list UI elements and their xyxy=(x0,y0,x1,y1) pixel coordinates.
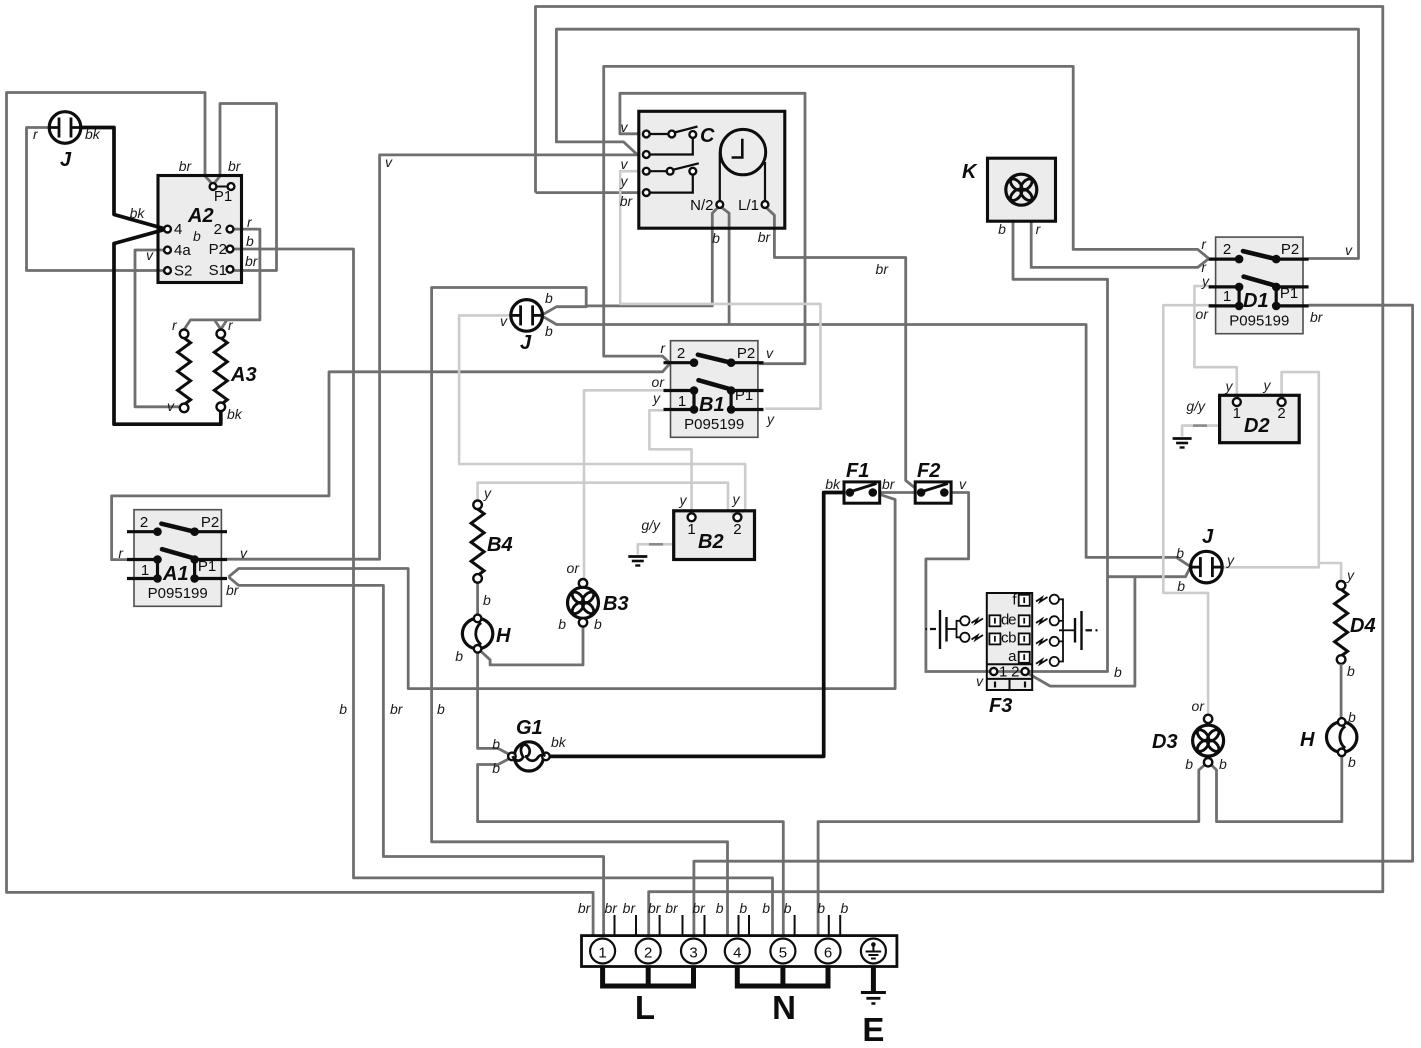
svg-text:y: y xyxy=(766,411,775,427)
wire br D1-P1 to terminal 3 xyxy=(694,305,1413,935)
svg-text:b: b xyxy=(998,221,1006,237)
svg-text:b: b xyxy=(545,323,553,339)
wire b D3 right leg to H-right xyxy=(1209,754,1342,822)
fan block K xyxy=(988,158,1056,221)
svg-text:b: b xyxy=(1177,578,1185,594)
svg-text:y: y xyxy=(1201,273,1210,289)
wire r J to A2-S2 xyxy=(27,128,165,271)
wire v A2-4a to A3 xyxy=(135,250,180,407)
svg-text:b: b xyxy=(1348,754,1356,770)
svg-text:b: b xyxy=(841,900,849,916)
svg-text:b: b xyxy=(193,228,201,244)
fan D3 xyxy=(1204,715,1212,723)
svg-text:br: br xyxy=(1310,309,1324,325)
switch block D1 fill xyxy=(1216,237,1303,334)
svg-text:D4: D4 xyxy=(1350,615,1376,637)
svg-text:1: 1 xyxy=(141,562,149,579)
svg-text:P095199: P095199 xyxy=(1229,313,1289,330)
svg-text:b: b xyxy=(246,233,254,249)
svg-text:b: b xyxy=(1008,630,1016,647)
svg-text:b: b xyxy=(1114,664,1122,680)
svg-text:v: v xyxy=(500,313,508,329)
svg-text:2: 2 xyxy=(1277,405,1285,422)
svg-text:B2: B2 xyxy=(698,531,724,553)
svg-text:br: br xyxy=(692,900,706,916)
svg-text:b: b xyxy=(1185,756,1193,772)
svg-text:P2: P2 xyxy=(209,241,227,258)
C switch 2 xyxy=(643,168,650,175)
N bridge xyxy=(737,967,828,987)
svg-text:v: v xyxy=(621,119,629,135)
wire y D2 pin2 riser to J-right and D4 xyxy=(1223,372,1319,567)
svg-text:N: N xyxy=(772,989,796,1026)
svg-text:L/1: L/1 xyxy=(738,197,759,214)
svg-text:y: y xyxy=(1263,377,1272,393)
svg-text:B1: B1 xyxy=(699,394,725,416)
lamp G1 xyxy=(514,742,543,771)
svg-text:P1: P1 xyxy=(214,188,232,205)
wire or B1-1 upper to B3 top xyxy=(584,390,664,578)
svg-text:F1: F1 xyxy=(846,460,869,482)
svg-text:v: v xyxy=(1345,242,1353,258)
svg-text:2: 2 xyxy=(140,514,148,531)
block D2 xyxy=(1220,395,1300,442)
svg-text:P1: P1 xyxy=(198,558,216,575)
wire br A2-P1 left loop to T2 bus xyxy=(7,93,594,936)
svg-text:b: b xyxy=(817,900,825,916)
terminal stubs xyxy=(615,915,841,936)
wire y D1-1 upper to D2 pin1 xyxy=(1194,286,1236,397)
svg-text:br: br xyxy=(623,900,637,916)
resistor A3 (left) xyxy=(180,330,189,339)
svg-text:2: 2 xyxy=(1011,664,1019,681)
svg-text:v: v xyxy=(167,398,175,414)
svg-text:b: b xyxy=(492,736,500,752)
svg-text:B3: B3 xyxy=(603,593,629,615)
wire br F1-F2 link xyxy=(874,491,920,494)
svg-text:y: y xyxy=(652,390,661,406)
svg-text:2: 2 xyxy=(1223,241,1231,258)
svg-text:P2: P2 xyxy=(737,345,755,362)
svg-text:b: b xyxy=(1176,545,1184,561)
svg-text:or: or xyxy=(1192,698,1206,714)
svg-text:P1: P1 xyxy=(735,387,753,404)
svg-text:H: H xyxy=(1300,729,1315,751)
E earth xyxy=(871,967,876,993)
svg-text:v: v xyxy=(766,345,774,361)
svg-text:br: br xyxy=(648,900,662,916)
svg-text:A3: A3 xyxy=(230,364,257,386)
svg-text:D3: D3 xyxy=(1152,731,1178,753)
svg-text:y: y xyxy=(732,491,741,507)
svg-text:L: L xyxy=(635,989,655,1026)
bottom wire colour labels xyxy=(578,900,849,916)
svg-text:or: or xyxy=(1196,306,1210,322)
svg-text:6: 6 xyxy=(824,945,832,962)
svg-text:D2: D2 xyxy=(1244,415,1270,437)
wire outer frame left vertical to T2 bus xyxy=(536,7,1383,936)
wire v F2 to F3 pin1 xyxy=(926,493,969,671)
svg-text:A2: A2 xyxy=(187,205,214,227)
svg-text:bk: bk xyxy=(130,205,146,221)
F3 right spark electrodes xyxy=(1050,595,1098,666)
wire r A3 right top v-dip xyxy=(215,320,228,329)
svg-text:5: 5 xyxy=(779,945,787,962)
svg-text:1: 1 xyxy=(678,393,686,410)
resistor D4 xyxy=(1337,581,1346,590)
wire y B1-1 lower to B2 pin1 xyxy=(649,410,691,512)
svg-text:bk: bk xyxy=(825,476,841,492)
wire bk G1 to F1 xyxy=(550,493,848,757)
svg-text:bk: bk xyxy=(227,406,243,422)
svg-text:b: b xyxy=(483,592,491,608)
svg-text:y: y xyxy=(483,485,492,501)
terminal circles xyxy=(590,939,840,964)
terminal strip xyxy=(582,936,897,967)
svg-text:D1: D1 xyxy=(1243,290,1269,312)
wire g/y D2 to ground xyxy=(1182,426,1218,437)
svg-text:v: v xyxy=(976,673,984,689)
A2 pins xyxy=(164,226,171,233)
C clock xyxy=(720,129,765,174)
svg-text:2: 2 xyxy=(677,345,685,362)
ignition block F3 xyxy=(987,593,1032,690)
svg-text:J: J xyxy=(520,332,532,354)
svg-text:b: b xyxy=(716,900,724,916)
svg-text:br: br xyxy=(245,253,259,269)
svg-text:e: e xyxy=(1008,612,1016,629)
F3 spark arrows xyxy=(972,597,1048,664)
wire b F3 pin2 to J/K node xyxy=(1027,577,1135,686)
svg-text:y: y xyxy=(620,173,629,189)
svg-text:b: b xyxy=(1219,756,1227,772)
svg-text:K: K xyxy=(962,161,978,183)
svg-text:2: 2 xyxy=(644,945,652,962)
wire r K to D1-2 xyxy=(1031,221,1208,267)
svg-text:P095199: P095199 xyxy=(148,585,208,602)
svg-text:a: a xyxy=(1008,648,1017,665)
svg-text:F2: F2 xyxy=(917,460,940,482)
wire b C N/2 right branch xyxy=(720,206,729,325)
block B2 fill xyxy=(674,511,755,560)
svg-text:b: b xyxy=(558,616,566,632)
svg-text:P2: P2 xyxy=(1281,241,1299,258)
svg-text:H: H xyxy=(496,625,511,647)
svg-text:E: E xyxy=(862,1011,884,1048)
svg-text:br: br xyxy=(228,158,242,174)
svg-text:J: J xyxy=(1202,526,1214,548)
wire b K down to J-right and F3 row xyxy=(925,221,1108,671)
wire b B4 to H top xyxy=(476,582,479,616)
wire y C pin3 to B1-P1 lower xyxy=(620,171,820,409)
switch block D1 xyxy=(1209,237,1309,334)
svg-text:g/y: g/y xyxy=(1186,398,1206,414)
svg-text:2: 2 xyxy=(214,221,222,238)
wire b H bottom to B3 bottom xyxy=(480,626,584,665)
svg-text:b: b xyxy=(1347,663,1355,679)
switch F1 xyxy=(844,482,880,503)
svg-text:br: br xyxy=(876,261,890,277)
switch block B1 fill xyxy=(671,341,758,438)
svg-text:A1: A1 xyxy=(162,563,189,585)
svg-text:4a: 4a xyxy=(174,242,191,259)
wire br C pin4 outer frame to T6 xyxy=(536,191,641,194)
svg-text:F3: F3 xyxy=(989,695,1012,717)
switch F2 xyxy=(915,482,951,503)
wire v C pin1 over top to B1-P2 xyxy=(620,93,805,363)
wire b J-mid top lead to terminal 4 xyxy=(432,288,728,936)
svg-text:2: 2 xyxy=(733,521,741,538)
svg-text:br: br xyxy=(882,476,896,492)
resistor A3 (right) xyxy=(217,330,226,339)
F3 left spark electrodes xyxy=(926,610,970,649)
svg-text:v: v xyxy=(385,154,393,170)
lamp J (top-left) xyxy=(49,112,81,144)
svg-text:g/y: g/y xyxy=(641,517,661,533)
svg-text:bk: bk xyxy=(85,126,101,142)
svg-text:br: br xyxy=(665,900,679,916)
block A2 fill xyxy=(158,176,242,283)
wire br A1-P1 upper branch to F1 xyxy=(229,493,896,689)
svg-text:or: or xyxy=(652,374,666,390)
svg-text:1: 1 xyxy=(1233,405,1241,422)
wire v J-mid left lead to B2 pin2 xyxy=(459,315,745,515)
svg-text:N/2: N/2 xyxy=(690,197,713,214)
wire v D1-P2 over top to C pin2 xyxy=(556,29,1358,258)
svg-text:v: v xyxy=(240,545,248,561)
svg-text:b: b xyxy=(437,701,445,717)
svg-text:br: br xyxy=(604,900,618,916)
wire g/y B2 to ground xyxy=(638,544,673,554)
wire b J-mid bottom lead bus to J-right xyxy=(544,317,1190,566)
svg-text:S1: S1 xyxy=(209,262,227,279)
svg-text:b: b xyxy=(762,900,770,916)
svg-text:b: b xyxy=(712,230,720,246)
lamp J (middle) xyxy=(511,300,543,332)
ground (D2) xyxy=(1173,439,1192,448)
switch block A1 fill xyxy=(134,510,221,607)
svg-text:v: v xyxy=(146,247,154,263)
svg-text:br: br xyxy=(179,158,193,174)
svg-text:1: 1 xyxy=(1223,288,1231,305)
svg-text:or: or xyxy=(567,560,581,576)
switch block A1 xyxy=(127,510,227,607)
svg-text:1: 1 xyxy=(999,664,1007,681)
svg-text:B4: B4 xyxy=(487,534,513,556)
svg-text:b: b xyxy=(594,616,602,632)
wire b H bottom down with G1 detour to T5 bus xyxy=(478,651,510,755)
block B2 xyxy=(674,511,755,560)
wire br C L/1 down to F2 xyxy=(765,206,920,491)
wire b C N/2 left branch xyxy=(588,206,720,306)
svg-text:v: v xyxy=(621,156,629,172)
wire v A1 to C pin2 xyxy=(227,155,639,559)
timer block C fill xyxy=(639,111,785,228)
block A2 xyxy=(158,176,242,283)
svg-text:b: b xyxy=(339,701,347,717)
wire b A2-P2 down to terminal 5 xyxy=(234,249,773,936)
wire or D1-1 lower to D3 top xyxy=(1163,305,1212,713)
svg-text:br: br xyxy=(226,582,240,598)
svg-text:3: 3 xyxy=(689,945,697,962)
L bridge xyxy=(603,967,694,987)
wire br A2-S1 loop to P1 xyxy=(215,104,277,271)
svg-text:S2: S2 xyxy=(174,263,192,280)
ignition block F3 fill xyxy=(987,593,1032,690)
svg-text:G1: G1 xyxy=(516,717,543,739)
svg-text:P1: P1 xyxy=(1280,285,1298,302)
svg-text:y: y xyxy=(679,492,688,508)
svg-text:b: b xyxy=(455,648,463,664)
svg-text:br: br xyxy=(390,701,404,717)
wire b terminal 6 to D3 left leg xyxy=(818,763,1207,936)
ground (B2) xyxy=(628,557,647,566)
lamp J (right) xyxy=(1191,551,1223,583)
svg-text:4: 4 xyxy=(174,221,182,238)
wire r B1-2 over top to D1-2 xyxy=(604,66,1209,363)
wire br A1-P1 lower branch to terminal 1 xyxy=(229,577,604,936)
svg-text:b: b xyxy=(492,760,500,776)
svg-text:C: C xyxy=(700,125,715,147)
block fills (under wires) xyxy=(134,111,1303,690)
svg-text:b: b xyxy=(545,290,553,306)
lamp H (right) xyxy=(1327,718,1357,756)
terminal earth symbol xyxy=(861,939,886,964)
svg-text:b: b xyxy=(739,900,747,916)
resistor B4 xyxy=(473,501,482,510)
svg-text:P095199: P095199 xyxy=(684,416,744,433)
svg-text:4: 4 xyxy=(733,945,741,962)
timer block C xyxy=(639,111,785,228)
block D2 fill xyxy=(1220,395,1300,442)
svg-text:1: 1 xyxy=(687,521,695,538)
svg-text:br: br xyxy=(578,900,592,916)
fan block K fill xyxy=(988,158,1056,221)
svg-text:bk: bk xyxy=(551,734,567,750)
svg-text:P2: P2 xyxy=(201,514,219,531)
switch block B1 xyxy=(664,341,764,438)
wire r A2-2 to A3 tops xyxy=(184,229,260,329)
C motor leads xyxy=(719,153,721,202)
svg-text:b: b xyxy=(1348,709,1356,725)
wire bk J-top through A2-4 to A3 bottom xyxy=(81,128,221,425)
svg-text:y: y xyxy=(1225,378,1234,394)
fan B3 xyxy=(579,579,587,587)
svg-text:1: 1 xyxy=(598,945,606,962)
svg-text:y: y xyxy=(1346,567,1355,583)
wire b D4 to H-right xyxy=(1340,664,1343,721)
svg-text:br: br xyxy=(758,229,772,245)
wire y D4 top to riser xyxy=(1319,563,1341,581)
svg-text:v: v xyxy=(959,476,967,492)
wire b branch to J-right lower lead xyxy=(1108,568,1190,577)
svg-text:b: b xyxy=(784,900,792,916)
lamp H (left) xyxy=(462,615,492,653)
svg-text:y: y xyxy=(1226,552,1235,568)
wire y B4 top to B2 pin2 xyxy=(478,483,735,515)
wire r A1-1 up to B1-2 xyxy=(112,364,670,560)
svg-text:J: J xyxy=(60,149,72,171)
svg-text:br: br xyxy=(620,193,634,209)
C switch 1 xyxy=(643,131,650,138)
